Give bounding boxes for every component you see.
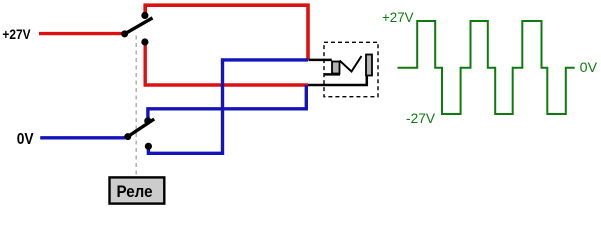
node A tip wire <box>309 59 332 62</box>
wire 0V feed <box>40 136 125 139</box>
wire lower-switch upper contact to node B <box>148 85 306 122</box>
relay box <box>110 177 165 203</box>
node B sleeve wire <box>308 76 367 86</box>
switch SW2 common contact dot <box>124 133 131 140</box>
switch SW1 common contact dot <box>121 30 128 37</box>
svg-text:+27V: +27V <box>2 26 31 42</box>
jack tip base line <box>324 73 341 76</box>
svg-text:+27V: +27V <box>382 10 414 25</box>
svg-text:0V: 0V <box>17 131 34 148</box>
dashed relay linkage line <box>135 36 137 177</box>
switch SW1 lever <box>125 18 153 34</box>
waveform trace <box>398 21 575 114</box>
switch SW1 lower contact dot <box>141 38 148 45</box>
switch SW2 lever <box>128 119 154 137</box>
svg-text:-27V: -27V <box>406 111 435 126</box>
switch SW2 upper contact dot <box>144 117 151 124</box>
jack spring contact <box>340 56 362 72</box>
wire top rail from upper contact to node A <box>145 5 308 60</box>
dashed enclosure around jack <box>324 42 378 96</box>
jack tip contact plate <box>332 62 340 74</box>
wire lower contact to node B <box>145 42 308 85</box>
jack sleeve plate <box>366 55 372 76</box>
svg-text:Реле: Реле <box>117 182 153 201</box>
wire +27V feed <box>39 32 122 35</box>
wire lower-switch lower contact to node A <box>148 60 308 153</box>
svg-text:0V: 0V <box>580 60 597 75</box>
switch SW1 upper contact dot <box>141 12 148 19</box>
switch SW2 lower contact dot <box>145 143 152 150</box>
